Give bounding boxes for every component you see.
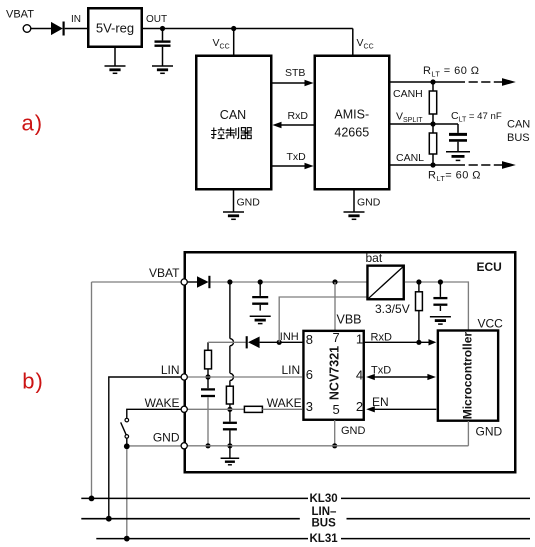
wire CANL <box>389 164 465 166</box>
svg-text:RxD: RxD <box>371 331 392 343</box>
svg-text:7: 7 <box>333 330 340 345</box>
wire TxD with two arrows <box>366 374 436 380</box>
wire switch to GND terminal <box>130 445 182 447</box>
svg-text:5V-reg: 5V-reg <box>96 21 134 36</box>
terminal WAKE (b) <box>181 406 187 412</box>
svg-text:AMIS-: AMIS- <box>334 108 369 122</box>
svg-text:CANH: CANH <box>393 88 423 100</box>
svg-text:TxD: TxD <box>371 365 391 377</box>
diode D3 <box>247 336 260 348</box>
svg-text:CAN: CAN <box>507 118 530 130</box>
wire <box>31 28 51 30</box>
svg-text:GND: GND <box>476 424 503 438</box>
label 制 (hand drawn) <box>225 127 238 138</box>
wire WAKE to pin 3 <box>262 408 302 410</box>
svg-text:TxD: TxD <box>287 151 307 163</box>
wire KL31 <box>96 538 530 540</box>
svg-text:8: 8 <box>306 332 313 347</box>
resistor RLT1 <box>429 82 436 124</box>
svg-text:42665: 42665 <box>334 126 369 140</box>
wire GND rail to ground <box>229 446 231 458</box>
node junction WAKE <box>227 407 232 412</box>
node junction LIN <box>205 374 210 379</box>
node junction GND rail <box>205 443 210 448</box>
node VSPLIT junction <box>430 121 435 126</box>
IC Microcontroller <box>438 331 498 421</box>
svg-text:2: 2 <box>356 399 363 414</box>
label 控 (hand drawn) <box>211 127 225 138</box>
svg-text:LIN: LIN <box>282 363 301 377</box>
wire VBAT to diode <box>186 281 197 283</box>
terminal GND (b) <box>181 443 187 449</box>
svg-text:BUS: BUS <box>312 517 337 529</box>
wire INH branch corner <box>207 342 209 350</box>
svg-text:WAKE: WAKE <box>145 396 180 410</box>
wire LIN-BUS <box>81 518 530 520</box>
svg-text:3.3/5V: 3.3/5V <box>375 302 410 316</box>
node junction <box>227 279 232 284</box>
wire KL30 <box>81 497 530 499</box>
svg-text:LIN: LIN <box>161 363 180 377</box>
ground under CLT <box>446 152 470 161</box>
svg-text:3: 3 <box>306 399 313 414</box>
terminal VBAT <box>23 25 31 33</box>
svg-text:INH: INH <box>280 331 299 343</box>
ground under C1 <box>152 66 173 73</box>
node junction VBB <box>332 279 337 284</box>
resistor R6 <box>244 406 262 412</box>
svg-text:ECU: ECU <box>477 260 502 274</box>
wire VBAT branch vertical with hops <box>230 282 234 386</box>
svg-text:RLT = 60 Ω: RLT = 60 Ω <box>423 65 479 78</box>
svg-text:Microcontroller: Microcontroller <box>461 332 475 420</box>
svg-text:LIN–: LIN– <box>312 506 338 518</box>
resistor R3 <box>226 386 233 404</box>
svg-text:GND: GND <box>341 425 366 437</box>
wire diode to INH pin <box>260 341 303 343</box>
svg-text:CLT = 47 nF: CLT = 47 nF <box>451 110 502 123</box>
node junction <box>416 279 421 284</box>
svg-text:bat: bat <box>366 251 383 265</box>
ground under C2 <box>250 316 271 323</box>
svg-text:VBAT: VBAT <box>149 266 180 280</box>
svg-text:VCC: VCC <box>478 316 504 330</box>
wire STB with arrow <box>273 80 314 87</box>
capacitor C1 <box>155 29 171 67</box>
wire CAN bus dashed H with arrow <box>469 78 516 86</box>
svg-text:VBAT: VBAT <box>6 9 34 21</box>
svg-text:b): b) <box>22 369 44 394</box>
diode D2 <box>197 276 209 288</box>
node junction KL30 <box>89 496 95 502</box>
resistor RLT2 <box>429 124 436 165</box>
resistor R4 <box>205 350 212 369</box>
ground under C5 <box>430 317 451 324</box>
capacitor C2 <box>252 282 268 311</box>
node CANH junction <box>430 79 435 84</box>
wire EN with arrow <box>366 406 436 412</box>
svg-text:OUT: OUT <box>146 14 167 25</box>
node junction <box>438 279 443 284</box>
wire NCV GND <box>334 420 336 446</box>
svg-text:6: 6 <box>306 367 313 382</box>
svg-text:IN: IN <box>71 14 81 25</box>
wire VBB drop <box>334 282 336 330</box>
svg-text:KL30: KL30 <box>310 493 338 505</box>
wire WAKE inside <box>186 408 245 410</box>
wire regulator output rail <box>405 282 469 330</box>
node junction RxD <box>416 340 421 345</box>
svg-text:GND: GND <box>357 197 381 209</box>
svg-text:KL31: KL31 <box>310 533 339 545</box>
regulator bat 3.3/5V <box>367 266 403 300</box>
ground under 5V-reg <box>105 47 126 73</box>
node junction INH <box>277 340 282 345</box>
svg-text:NCV7321: NCV7321 <box>328 346 342 400</box>
node CANL junction <box>430 162 435 167</box>
svg-text:VCC: VCC <box>213 37 230 51</box>
wire Vcc rail <box>142 28 353 30</box>
svg-text:RLT= 60 Ω: RLT= 60 Ω <box>428 170 481 183</box>
wire WAKE outside <box>127 409 181 418</box>
terminal LIN (b) <box>181 374 187 380</box>
wire Vcc to AMIS <box>352 29 354 56</box>
wire Vcc to CAN <box>233 29 235 56</box>
wire to WAKE <box>229 404 231 409</box>
wire VSPLIT <box>389 123 458 125</box>
switch S1 <box>121 418 129 443</box>
wire MCU GND drop <box>467 421 469 446</box>
ground CAN GND <box>223 190 260 220</box>
wire TxD with arrow <box>273 163 314 170</box>
wire VBAT outside <box>92 282 182 498</box>
node junction Vcc CAN <box>231 26 236 31</box>
wire INH <box>208 341 246 343</box>
wire INH to bat regulator <box>279 297 366 342</box>
wire switch to KL31 <box>126 449 128 539</box>
svg-text:5: 5 <box>333 402 340 417</box>
svg-text:CAN: CAN <box>220 108 246 122</box>
node junction <box>160 26 165 31</box>
node junction <box>332 443 337 448</box>
capacitor C3 <box>223 409 237 446</box>
node junction KL31 <box>124 536 130 542</box>
wire RxD with arrow <box>364 339 437 345</box>
terminal VBAT (b) <box>181 279 187 285</box>
ground below GND rail <box>221 458 240 465</box>
capacitor C4 <box>201 377 215 446</box>
svg-text:a): a) <box>22 111 44 136</box>
wire CANH <box>389 81 465 83</box>
ECU box <box>185 252 516 472</box>
svg-text:VSPLIT: VSPLIT <box>396 111 423 124</box>
svg-text:GND: GND <box>153 430 180 444</box>
wire LIN inside <box>186 376 303 378</box>
diode D1 <box>51 22 87 36</box>
svg-text:GND: GND <box>237 197 261 209</box>
node junction LIN-BUS <box>106 516 112 522</box>
svg-text:VCC: VCC <box>357 37 374 51</box>
svg-text:STB: STB <box>285 67 305 79</box>
wire LIN outside <box>109 377 181 519</box>
svg-text:VBB: VBB <box>337 312 362 326</box>
svg-text:RxD: RxD <box>288 110 309 122</box>
wire RxD with arrow <box>272 122 313 129</box>
svg-text:4: 4 <box>356 367 363 382</box>
node switch junction <box>124 443 130 449</box>
wire to LIN <box>207 369 209 377</box>
IC NCV7321 <box>303 331 363 420</box>
node junction GND rail <box>227 443 232 448</box>
svg-text:WAKE: WAKE <box>267 396 302 410</box>
capacitor CLT <box>449 124 467 151</box>
svg-text:CANL: CANL <box>396 152 424 164</box>
wire VBAT rail <box>211 281 367 283</box>
svg-text:EN: EN <box>372 395 389 409</box>
IC CAN controller <box>196 56 271 190</box>
IC AMIS-42665 <box>315 56 390 190</box>
svg-text:1: 1 <box>356 331 363 346</box>
capacitor C5 <box>433 282 447 311</box>
node junction <box>258 279 263 284</box>
wire GND rail <box>186 445 468 447</box>
svg-text:BUS: BUS <box>507 132 530 144</box>
ground AMIS GND <box>344 190 381 220</box>
resistor R5 pull-up <box>416 282 423 342</box>
wire CAN bus dashed L with arrow <box>469 161 516 169</box>
label 器 (hand drawn) <box>241 128 252 139</box>
regulator 5V-reg <box>88 8 142 47</box>
